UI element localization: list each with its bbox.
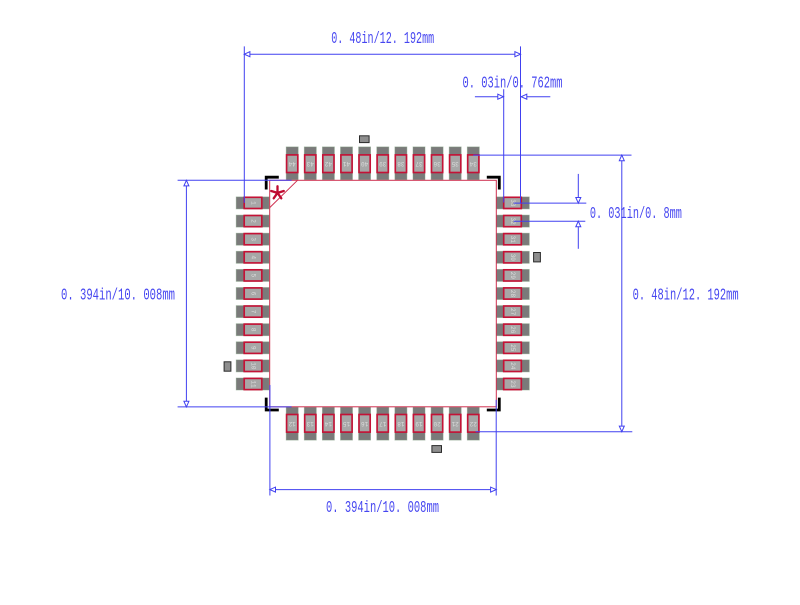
pad 12 (B side) with lead outline [286,407,298,440]
dimension 0.031in/0.8mm pad pitch (right) [514,174,682,249]
svg-text:4: 4 [250,255,257,259]
svg-text:43: 43 [306,160,314,167]
svg-text:20: 20 [433,420,441,427]
svg-text:6: 6 [250,292,257,296]
pad 10 (L side) with lead outline [236,360,269,372]
svg-text:10: 10 [250,362,257,370]
svg-text:9: 9 [250,346,257,350]
svg-text:1: 1 [250,201,257,205]
pad 31 (R side) with lead outline [496,233,529,245]
corner bracket top-right [487,177,500,189]
svg-text:18: 18 [397,420,405,427]
pad 17 (B side) with lead outline [377,407,389,440]
svg-text:22: 22 [469,420,477,427]
pad 6 (L side) with lead outline [236,288,269,300]
svg-text:40: 40 [361,160,369,167]
corner bracket bottom-right [487,398,500,410]
orientation mark near pin 40 (top) [360,136,370,143]
svg-text:7: 7 [250,310,257,314]
pad 23 (R side) with lead outline [496,378,529,390]
orientation mark near pin 30 (right) [534,253,541,262]
svg-text:3: 3 [250,237,257,241]
svg-text:35: 35 [451,160,459,167]
pad 5 (L side) with lead outline [236,269,269,281]
pin-1 chamfer diagonal [270,180,298,207]
dimension 0.48in/12.192mm overall height (right) [473,155,738,432]
svg-text:12: 12 [288,420,296,427]
pad 32 (R side) with lead outline [496,215,529,227]
pad 15 (B side) with lead outline [341,407,353,440]
pad 44 (T side) with lead outline [286,147,298,180]
pad 30 (R side) with lead outline [496,251,529,263]
svg-text:24: 24 [509,362,516,370]
svg-text:25: 25 [509,344,516,352]
pad 21 (B side) with lead outline [449,407,461,440]
svg-text:34: 34 [469,160,477,167]
svg-text:37: 37 [415,160,423,167]
dimension 0.394in/10.008mm body width (bottom) [270,385,496,518]
svg-text:17: 17 [379,420,387,427]
pad 20 (B side) with lead outline [431,407,443,440]
package body outline [270,180,497,406]
pad 1 (L side) with lead outline [236,197,269,209]
pad 4 (L side) with lead outline [236,251,269,263]
pad 24 (R side) with lead outline [496,360,529,372]
svg-text:21: 21 [451,420,459,427]
orientation mark near pin 20 (bottom) [432,446,442,453]
corner bracket bottom-left [266,398,279,410]
pad 16 (B side) with lead outline [359,407,371,440]
pad 41 (T side) with lead outline [341,147,353,180]
pad 42 (T side) with lead outline [322,147,334,180]
pad 38 (T side) with lead outline [395,147,407,180]
pad 29 (R side) with lead outline [496,269,529,281]
pad 39 (T side) with lead outline [377,147,389,180]
svg-text:30: 30 [509,254,516,262]
corner bracket top-left [266,177,279,189]
pad 43 (T side) with lead outline [304,147,316,180]
svg-text:29: 29 [509,272,516,280]
dimension 0.03in/0.762mm lead length (top right) [463,75,563,203]
svg-text:28: 28 [509,290,516,298]
svg-text:0. 48in/12. 192mm: 0. 48in/12. 192mm [633,287,739,306]
svg-text:38: 38 [397,160,405,167]
pad 37 (T side) with lead outline [413,147,425,180]
pin 1 marker asterisk [271,186,284,198]
svg-text:0. 394in/10. 008mm: 0. 394in/10. 008mm [326,499,439,518]
pad 8 (L side) with lead outline [236,324,269,336]
svg-text:44: 44 [288,160,296,167]
dimension 0.48in/12.192mm overall width (top) [244,30,520,203]
svg-text:31: 31 [509,236,516,244]
svg-text:41: 41 [343,160,351,167]
svg-text:16: 16 [361,420,369,427]
pad 2 (L side) with lead outline [236,215,269,227]
pad 9 (L side) with lead outline [236,342,269,354]
dimension 0.394in/10.008mm body height (left) [61,180,292,407]
orientation mark near pin 10 (left) [224,362,231,371]
svg-text:26: 26 [509,326,516,334]
svg-text:0. 48in/12. 192mm: 0. 48in/12. 192mm [331,30,434,49]
pad 25 (R side) with lead outline [496,342,529,354]
pad 40 (T side) with lead outline [359,147,371,180]
pad 28 (R side) with lead outline [496,288,529,300]
pad 34 (T side) with lead outline [467,147,479,180]
pad 22 (B side) with lead outline [467,407,479,440]
pad 26 (R side) with lead outline [496,324,529,336]
svg-text:0. 03in/0. 762mm: 0. 03in/0. 762mm [463,75,563,94]
pad 35 (T side) with lead outline [449,147,461,180]
svg-text:23: 23 [509,380,516,388]
svg-text:13: 13 [306,420,314,427]
pad 36 (T side) with lead outline [431,147,443,180]
svg-text:42: 42 [324,160,332,167]
pad 14 (B side) with lead outline [322,407,334,440]
svg-text:11: 11 [250,380,257,388]
pad 33 (R side) with lead outline [496,197,529,209]
pad 3 (L side) with lead outline [236,233,269,245]
pad 27 (R side) with lead outline [496,306,529,318]
svg-text:5: 5 [250,274,257,278]
pad 18 (B side) with lead outline [395,407,407,440]
svg-text:14: 14 [324,420,332,427]
pad 13 (B side) with lead outline [304,407,316,440]
svg-text:8: 8 [250,328,257,332]
svg-text:0. 394in/10. 008mm: 0. 394in/10. 008mm [61,287,175,306]
svg-text:36: 36 [433,160,441,167]
svg-text:0. 031in/0. 8mm: 0. 031in/0. 8mm [590,205,682,224]
pad 19 (B side) with lead outline [413,407,425,440]
svg-text:15: 15 [343,420,351,427]
pad 7 (L side) with lead outline [236,306,269,318]
svg-text:2: 2 [250,219,257,223]
svg-text:19: 19 [415,420,423,427]
svg-text:39: 39 [379,160,387,167]
svg-text:27: 27 [509,308,516,316]
pad 11 (L side) with lead outline [236,378,269,390]
